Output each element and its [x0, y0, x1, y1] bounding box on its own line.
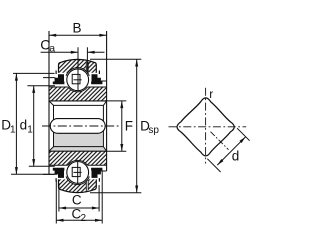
inner ring left end block bottom face	[43, 171, 57, 174]
lubrication channel white-out top	[86, 62, 88, 73]
d1 arrow bottom	[32, 159, 35, 166]
D1 arrow bottom	[15, 167, 18, 174]
dimension d line	[217, 137, 245, 165]
lube channel edges top	[86, 62, 88, 72]
square bore view: vertical centerline	[205, 88, 207, 164]
svg-text:a: a	[49, 43, 55, 55]
C arrow left	[59, 207, 66, 210]
seal left bottom (black)	[53, 168, 65, 182]
dimension d1 line	[33, 86, 35, 167]
outer ring outline bottom	[59, 179, 97, 192]
B arrow right	[99, 34, 106, 37]
square bore view: horizontal centerline	[169, 126, 247, 128]
ball bottom	[67, 162, 89, 184]
Dsp extension line bottom	[90, 192, 141, 194]
C extension line left	[58, 183, 60, 212]
lube channel edges bottom	[86, 180, 88, 190]
F arrow bottom	[120, 144, 123, 151]
dimension C line	[59, 207, 99, 209]
Ca arrow left	[71, 51, 78, 54]
svg-text:1: 1	[10, 124, 16, 135]
inner ring left end block top face	[43, 78, 57, 81]
d extension line from bottom corner	[207, 159, 220, 172]
outer ring bottom section	[59, 179, 97, 192]
inner ring right end block top face	[100, 81, 107, 84]
d arrow upper-right	[239, 137, 245, 143]
C2 arrow left	[56, 219, 63, 222]
raceway white-out bottom ball	[66, 161, 90, 185]
d extension line from right corner	[237, 128, 250, 141]
bore corner bevels	[49, 101, 107, 151]
C arrow right	[92, 207, 99, 210]
Ca arrow right	[87, 51, 94, 54]
Dsp arrow top	[135, 59, 138, 66]
bore top line	[49, 100, 107, 102]
svg-text:d: d	[20, 118, 28, 133]
C2 extension line left	[55, 180, 57, 224]
inner ring band top edge	[49, 86, 107, 88]
svg-text:B: B	[72, 20, 81, 35]
dimension F line	[121, 101, 123, 151]
inner ring left face	[48, 31, 50, 174]
C2 arrow right	[95, 219, 102, 222]
outer ring section (hatched crown block)	[59, 59, 97, 72]
lubrication channel white-out bottom	[86, 180, 88, 191]
Dsp arrow bottom	[135, 186, 138, 193]
raceway arc inner top	[68, 87, 88, 92]
d1 extension line top	[27, 85, 55, 87]
F arrow top	[120, 101, 123, 108]
D1 extension line bottom	[11, 173, 57, 175]
svg-text:sp: sp	[148, 125, 159, 136]
inner ring band bottom edge	[49, 164, 107, 166]
bore inner rect	[54, 105, 104, 146]
svg-text:F: F	[125, 118, 133, 133]
dimension B line	[49, 34, 107, 36]
d1 arrow top	[32, 86, 35, 93]
raceway white-out top ball	[66, 68, 90, 92]
C2 extension line right	[101, 172, 103, 224]
raceway arc outer top	[66, 68, 89, 76]
inner ring top band (hatched)	[49, 87, 107, 101]
Ca tick 1 / ball top center vertical	[77, 47, 79, 91]
seal right top (black)	[91, 71, 102, 85]
dimension D1 line	[15, 73, 17, 174]
square bore view: diagonal centerline	[211, 132, 229, 150]
bore flats stadium	[50, 119, 105, 134]
dimension Ca line right part	[87, 51, 104, 53]
ball top	[67, 69, 89, 91]
svg-text:1: 1	[27, 124, 33, 135]
Dsp extension line top	[90, 58, 141, 60]
d1 extension line bottom	[29, 165, 55, 167]
raceway arc inner bottom	[68, 160, 88, 165]
raceway arc outer bottom	[66, 176, 89, 184]
D1 extension line top	[13, 72, 55, 74]
square bore outline (rounded diamond)	[177, 98, 234, 156]
inner ring right end block bottom face	[100, 169, 107, 172]
seal left top (black)	[53, 71, 65, 85]
B arrow left	[49, 34, 56, 37]
ball top cross tick	[74, 79, 82, 81]
dimension C2 line	[56, 219, 102, 221]
dimension Dsp line	[136, 59, 138, 192]
seal right bottom (black)	[91, 168, 102, 182]
bore bottom line	[49, 150, 107, 152]
inner ring bottom band (hatched)	[49, 151, 107, 165]
main axis centerline	[42, 125, 121, 127]
svg-text:r: r	[209, 87, 213, 101]
cage section top ball	[72, 74, 80, 83]
F extension line bottom	[107, 150, 126, 152]
d arrow lower-left	[217, 159, 223, 165]
F extension line top	[107, 100, 126, 102]
bore gray far-wall shading	[49, 133, 106, 151]
dimension Ca line left part	[41, 51, 78, 53]
svg-text:2: 2	[81, 213, 87, 224]
ball bottom center vertical	[77, 161, 79, 184]
Ca tick 2	[86, 47, 88, 73]
cage section bottom ball	[72, 167, 80, 176]
outer ring outline top	[59, 59, 97, 72]
inner ring right face	[106, 31, 108, 171]
ball bottom cross tick	[74, 171, 82, 173]
D1 arrow top	[15, 73, 18, 80]
C extension line right	[98, 185, 100, 212]
svg-text:d: d	[232, 148, 240, 163]
